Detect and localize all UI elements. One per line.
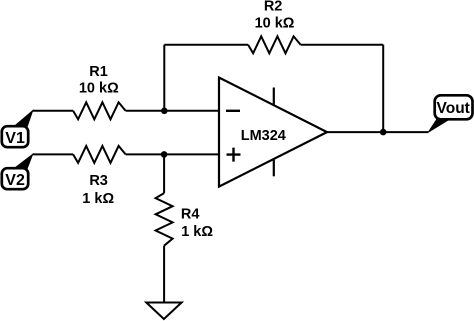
svg-text:Vout: Vout xyxy=(437,100,470,117)
svg-text:10 kΩ: 10 kΩ xyxy=(255,16,295,32)
node flag V1 xyxy=(2,126,28,147)
flag pointer Vout xyxy=(428,118,451,132)
wire R4 to ground xyxy=(163,246,165,303)
wire feedback top left horizontal xyxy=(164,44,248,46)
svg-text:1 kΩ: 1 kΩ xyxy=(181,224,213,240)
ground xyxy=(146,303,181,320)
node flag Vout xyxy=(435,95,473,119)
op-amp U1 triangle xyxy=(219,78,327,187)
svg-text:V2: V2 xyxy=(5,172,25,189)
svg-text:V1: V1 xyxy=(5,130,25,147)
svg-text:LM324: LM324 xyxy=(241,128,286,144)
junction dot output node xyxy=(380,129,387,136)
wire R1 to op-amp minus input xyxy=(126,110,219,112)
resistor R3 xyxy=(73,146,126,163)
svg-text:10 kΩ: 10 kΩ xyxy=(79,81,119,97)
wire feedback top right horizontal xyxy=(301,44,384,46)
wire feedback left vertical xyxy=(163,45,165,111)
svg-text:1 kΩ: 1 kΩ xyxy=(82,191,114,207)
wire feedback right vertical xyxy=(382,45,384,132)
resistor R1 xyxy=(73,102,126,119)
resistor R2 xyxy=(248,36,301,53)
svg-text:R1: R1 xyxy=(89,64,108,80)
wire V2 to R3 xyxy=(33,153,74,155)
wire plus input junction down to R4 xyxy=(163,154,165,193)
op-amp minus input symbol xyxy=(226,110,240,112)
node flag V2 xyxy=(2,168,28,189)
op-amp negative supply pin xyxy=(273,159,275,177)
wire R3 to op-amp plus input xyxy=(126,153,219,155)
svg-text:R4: R4 xyxy=(181,207,200,223)
svg-text:R3: R3 xyxy=(89,173,108,189)
junction dot plus input node xyxy=(161,151,168,158)
junction dot minus input node xyxy=(161,108,168,115)
svg-text:R2: R2 xyxy=(264,0,283,14)
wire V1 to R1 xyxy=(33,110,74,112)
wire op-amp output to Vout xyxy=(327,131,428,133)
flag pointer V1 xyxy=(14,111,33,127)
flag pointer V2 xyxy=(14,154,33,169)
op-amp positive supply pin xyxy=(273,88,275,106)
op-amp plus input symbol xyxy=(227,148,241,162)
resistor R4 xyxy=(156,193,173,246)
